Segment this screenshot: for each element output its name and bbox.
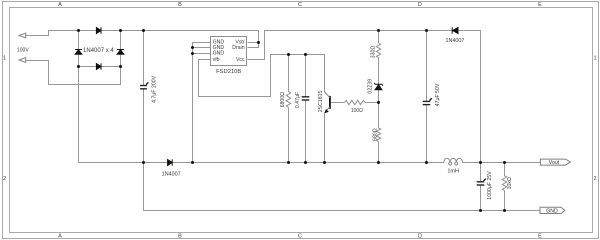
- svg-text:0.47μF: 0.47μF: [295, 92, 301, 108]
- wire node to R4: [378, 103, 380, 129]
- wire Q1 emitter drop: [324, 113, 326, 163]
- wire main rail left of inductor: [79, 162, 444, 164]
- svg-text:100Ω: 100Ω: [351, 108, 363, 114]
- svg-text:10kΩ: 10kΩ: [507, 177, 513, 189]
- wire R4 to rail: [378, 142, 380, 163]
- wire C1 branch upper: [143, 31, 145, 86]
- svg-text:1: 1: [593, 56, 596, 62]
- wire R5 branch bottom: [504, 191, 506, 211]
- svg-text:2: 2: [593, 176, 596, 182]
- wire IC GND pin 2: [193, 47, 211, 49]
- wire R3 to zener: [378, 58, 380, 85]
- wire R5 branch top: [504, 163, 506, 176]
- resistor R4 680 ohm: [376, 128, 380, 142]
- svg-text:C: C: [298, 234, 302, 240]
- resistor R2 100 ohm: [345, 100, 365, 104]
- svg-text:A: A: [58, 2, 62, 8]
- wire bridge right side: [120, 31, 122, 67]
- svg-text:1000μF 25V: 1000μF 25V: [487, 171, 493, 200]
- zener diode ZD1 02Z39: [374, 83, 383, 90]
- wire DC plus rail to IC: [121, 31, 259, 48]
- svg-text:GND: GND: [213, 51, 225, 57]
- wire C4 branch top: [480, 163, 482, 182]
- svg-text:4.7μF 200V: 4.7μF 200V: [152, 75, 158, 102]
- wire bridge bottom side: [79, 66, 121, 68]
- wire Vstr pin stub: [248, 42, 259, 44]
- svg-text:C: C: [298, 2, 302, 8]
- svg-text:E: E: [538, 234, 542, 240]
- wire C2 branch bottom: [305, 100, 307, 163]
- svg-text:100V: 100V: [17, 48, 29, 54]
- svg-text:2SC1815: 2SC1815: [318, 90, 324, 112]
- wire R1 branch top: [288, 55, 290, 92]
- svg-text:E: E: [538, 2, 542, 8]
- svg-text:D: D: [418, 234, 422, 240]
- svg-text:02Z39: 02Z39: [367, 79, 373, 94]
- svg-text:GND: GND: [546, 208, 558, 214]
- capacitor C4 1000uF 25V: [477, 179, 486, 185]
- svg-text:1mH: 1mH: [447, 169, 459, 175]
- svg-text:1: 1: [3, 56, 6, 62]
- svg-text:D: D: [418, 2, 422, 8]
- wire C2 branch top: [305, 55, 307, 97]
- node GND flag: [540, 207, 565, 214]
- diode D5 1N4007 Vcc feed: [452, 27, 458, 33]
- node Vout flag: [540, 159, 570, 166]
- wire R2 to zener node: [365, 102, 379, 104]
- wire C4 branch bottom: [480, 185, 482, 210]
- wire IC GND pin 1: [193, 43, 211, 163]
- svg-text:1N4007: 1N4007: [446, 38, 465, 44]
- svg-text:B: B: [178, 234, 182, 240]
- svg-text:1N4007 x 4: 1N4007 x 4: [83, 48, 114, 54]
- wire Vcc to top rail: [248, 31, 481, 163]
- capacitor C3 47uF 50V: [423, 98, 432, 104]
- wire IC GND pin 3: [193, 53, 211, 55]
- svg-text:FSD210B: FSD210B: [216, 69, 241, 75]
- svg-text:47μF 50V: 47μF 50V: [435, 83, 441, 106]
- diode D1 bridge top: [96, 27, 101, 33]
- resistor R3 330 ohm: [376, 43, 380, 58]
- svg-text:Vout: Vout: [549, 160, 560, 166]
- wire DC minus drop from bridge: [78, 67, 80, 163]
- wire C1 branch lower: [143, 89, 145, 162]
- input port P1: [19, 33, 26, 38]
- wire ground return rail: [144, 163, 541, 211]
- svg-text:B: B: [178, 2, 182, 8]
- wire C3 branch bottom: [426, 105, 428, 163]
- op IC U1 FSD210B box: [211, 37, 247, 66]
- svg-text:1N4007: 1N4007: [162, 171, 181, 177]
- wire bridge top side: [79, 30, 121, 32]
- capacitor C1 4.7uF 200V: [140, 82, 148, 88]
- wire C3 branch top: [426, 31, 428, 102]
- resistor R5 10k ohm: [502, 176, 506, 191]
- svg-text:Vcc: Vcc: [236, 57, 245, 63]
- wire vfb loop: [199, 55, 325, 97]
- svg-text:6800Ω: 6800Ω: [280, 92, 286, 108]
- transistor Q1 2SC1815: [324, 92, 330, 113]
- inductor L1 1mH: [444, 158, 463, 165]
- svg-text:330Ω: 330Ω: [370, 46, 376, 59]
- wire AC1: port1 to bridge top-left: [26, 31, 79, 36]
- capacitor C2 0.47uF: [302, 97, 310, 100]
- IC U1 pin names: [213, 40, 245, 64]
- svg-text:A: A: [58, 234, 62, 240]
- wire AC2: port2 to bridge bottom-right: [26, 61, 121, 85]
- diode D6 1N4007 freewheel: [168, 159, 173, 165]
- svg-text:vfb: vfb: [213, 57, 220, 63]
- diode D3 bridge right: [117, 50, 124, 55]
- resistor R1 6800 ohm: [286, 92, 290, 108]
- wire bridge left side: [78, 31, 80, 67]
- wire zener branch: rail to R3: [378, 31, 380, 44]
- svg-text:2: 2: [3, 176, 6, 182]
- wire zener to node: [378, 90, 380, 103]
- svg-text:680Ω: 680Ω: [372, 128, 378, 141]
- wire main rail right of inductor: [463, 162, 541, 164]
- wire Q1 base to R2: [331, 102, 345, 104]
- input port P2: [19, 58, 26, 63]
- wire R1 branch bottom: [288, 107, 290, 162]
- diode D2 bridge left: [75, 50, 82, 55]
- diode D4 bridge bottom: [96, 63, 101, 69]
- svg-text:Drain: Drain: [232, 45, 245, 51]
